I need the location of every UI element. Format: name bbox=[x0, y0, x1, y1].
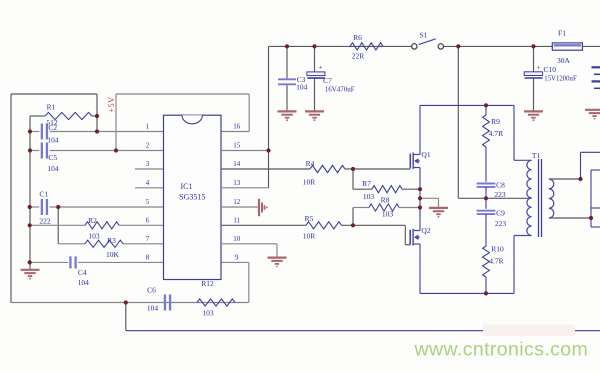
svg-text:R3: R3 bbox=[107, 236, 116, 245]
svg-text:R6: R6 bbox=[353, 33, 362, 42]
svg-text:R12: R12 bbox=[201, 279, 214, 288]
svg-text:IC1: IC1 bbox=[181, 182, 193, 191]
svg-text:SG3515: SG3515 bbox=[179, 192, 205, 201]
svg-text:13: 13 bbox=[233, 179, 241, 187]
svg-text:10K: 10K bbox=[106, 250, 120, 259]
svg-text:+: + bbox=[537, 63, 541, 71]
svg-text:R9: R9 bbox=[491, 117, 500, 126]
svg-text:30A: 30A bbox=[557, 56, 571, 65]
svg-text:22R: 22R bbox=[352, 52, 365, 61]
svg-text:C10: C10 bbox=[544, 65, 557, 74]
svg-text:8: 8 bbox=[146, 254, 150, 262]
svg-text:5: 5 bbox=[146, 198, 150, 206]
svg-text:16: 16 bbox=[233, 123, 241, 131]
svg-text:103: 103 bbox=[88, 231, 100, 240]
svg-text:10: 10 bbox=[233, 235, 241, 243]
svg-text:15: 15 bbox=[233, 142, 241, 150]
svg-text:T1: T1 bbox=[532, 151, 541, 160]
svg-text:10R: 10R bbox=[303, 231, 316, 240]
svg-text:C4: C4 bbox=[78, 268, 87, 277]
svg-text:11: 11 bbox=[233, 217, 240, 225]
svg-text:www.cntronics.com: www.cntronics.com bbox=[414, 338, 589, 360]
svg-text:+: + bbox=[318, 63, 322, 71]
svg-text:223: 223 bbox=[495, 219, 507, 228]
svg-text:C6: C6 bbox=[147, 286, 156, 295]
svg-text:103: 103 bbox=[202, 309, 214, 318]
svg-text:103: 103 bbox=[363, 192, 375, 201]
svg-text:R4: R4 bbox=[306, 159, 315, 168]
svg-text:104: 104 bbox=[147, 304, 159, 313]
svg-text:1: 1 bbox=[146, 123, 150, 131]
svg-text:R5: R5 bbox=[305, 214, 314, 223]
svg-text:6: 6 bbox=[146, 217, 150, 225]
svg-text:104: 104 bbox=[47, 136, 59, 145]
svg-text:Q1: Q1 bbox=[421, 150, 430, 159]
svg-text:7: 7 bbox=[146, 235, 150, 243]
svg-text:R10: R10 bbox=[491, 245, 504, 254]
svg-text:R8: R8 bbox=[381, 196, 390, 205]
svg-text:9: 9 bbox=[235, 254, 239, 262]
svg-text:C1: C1 bbox=[39, 190, 48, 199]
svg-text:14: 14 bbox=[233, 160, 241, 168]
svg-text:Q2: Q2 bbox=[421, 226, 430, 235]
svg-text:104: 104 bbox=[78, 278, 90, 287]
svg-text:R2: R2 bbox=[88, 216, 97, 225]
svg-text:103: 103 bbox=[382, 210, 394, 219]
svg-text:16V470uF: 16V470uF bbox=[325, 86, 355, 94]
svg-text:104: 104 bbox=[296, 83, 308, 92]
svg-text:S1: S1 bbox=[419, 30, 427, 39]
svg-text:C2: C2 bbox=[48, 123, 57, 132]
svg-text:10R: 10R bbox=[303, 177, 316, 186]
svg-text:R1: R1 bbox=[47, 103, 56, 112]
svg-text:15V1200uF: 15V1200uF bbox=[544, 75, 577, 82]
svg-text:C7: C7 bbox=[323, 76, 332, 85]
svg-text:3: 3 bbox=[146, 160, 150, 168]
svg-text:F1: F1 bbox=[558, 28, 566, 37]
svg-text:223: 223 bbox=[494, 190, 506, 199]
svg-text:+5V: +5V bbox=[107, 96, 116, 112]
svg-text:R7: R7 bbox=[362, 179, 371, 188]
svg-text:12: 12 bbox=[233, 198, 241, 206]
svg-text:C8: C8 bbox=[496, 181, 505, 190]
svg-text:C5: C5 bbox=[48, 153, 57, 162]
svg-text:4: 4 bbox=[146, 179, 150, 187]
svg-text:104: 104 bbox=[47, 164, 59, 173]
svg-text:2: 2 bbox=[146, 142, 150, 150]
svg-text:C9: C9 bbox=[496, 209, 505, 218]
svg-text:222: 222 bbox=[39, 217, 51, 226]
svg-text:4.7R: 4.7R bbox=[489, 129, 503, 138]
svg-text:4.7R: 4.7R bbox=[489, 257, 503, 266]
